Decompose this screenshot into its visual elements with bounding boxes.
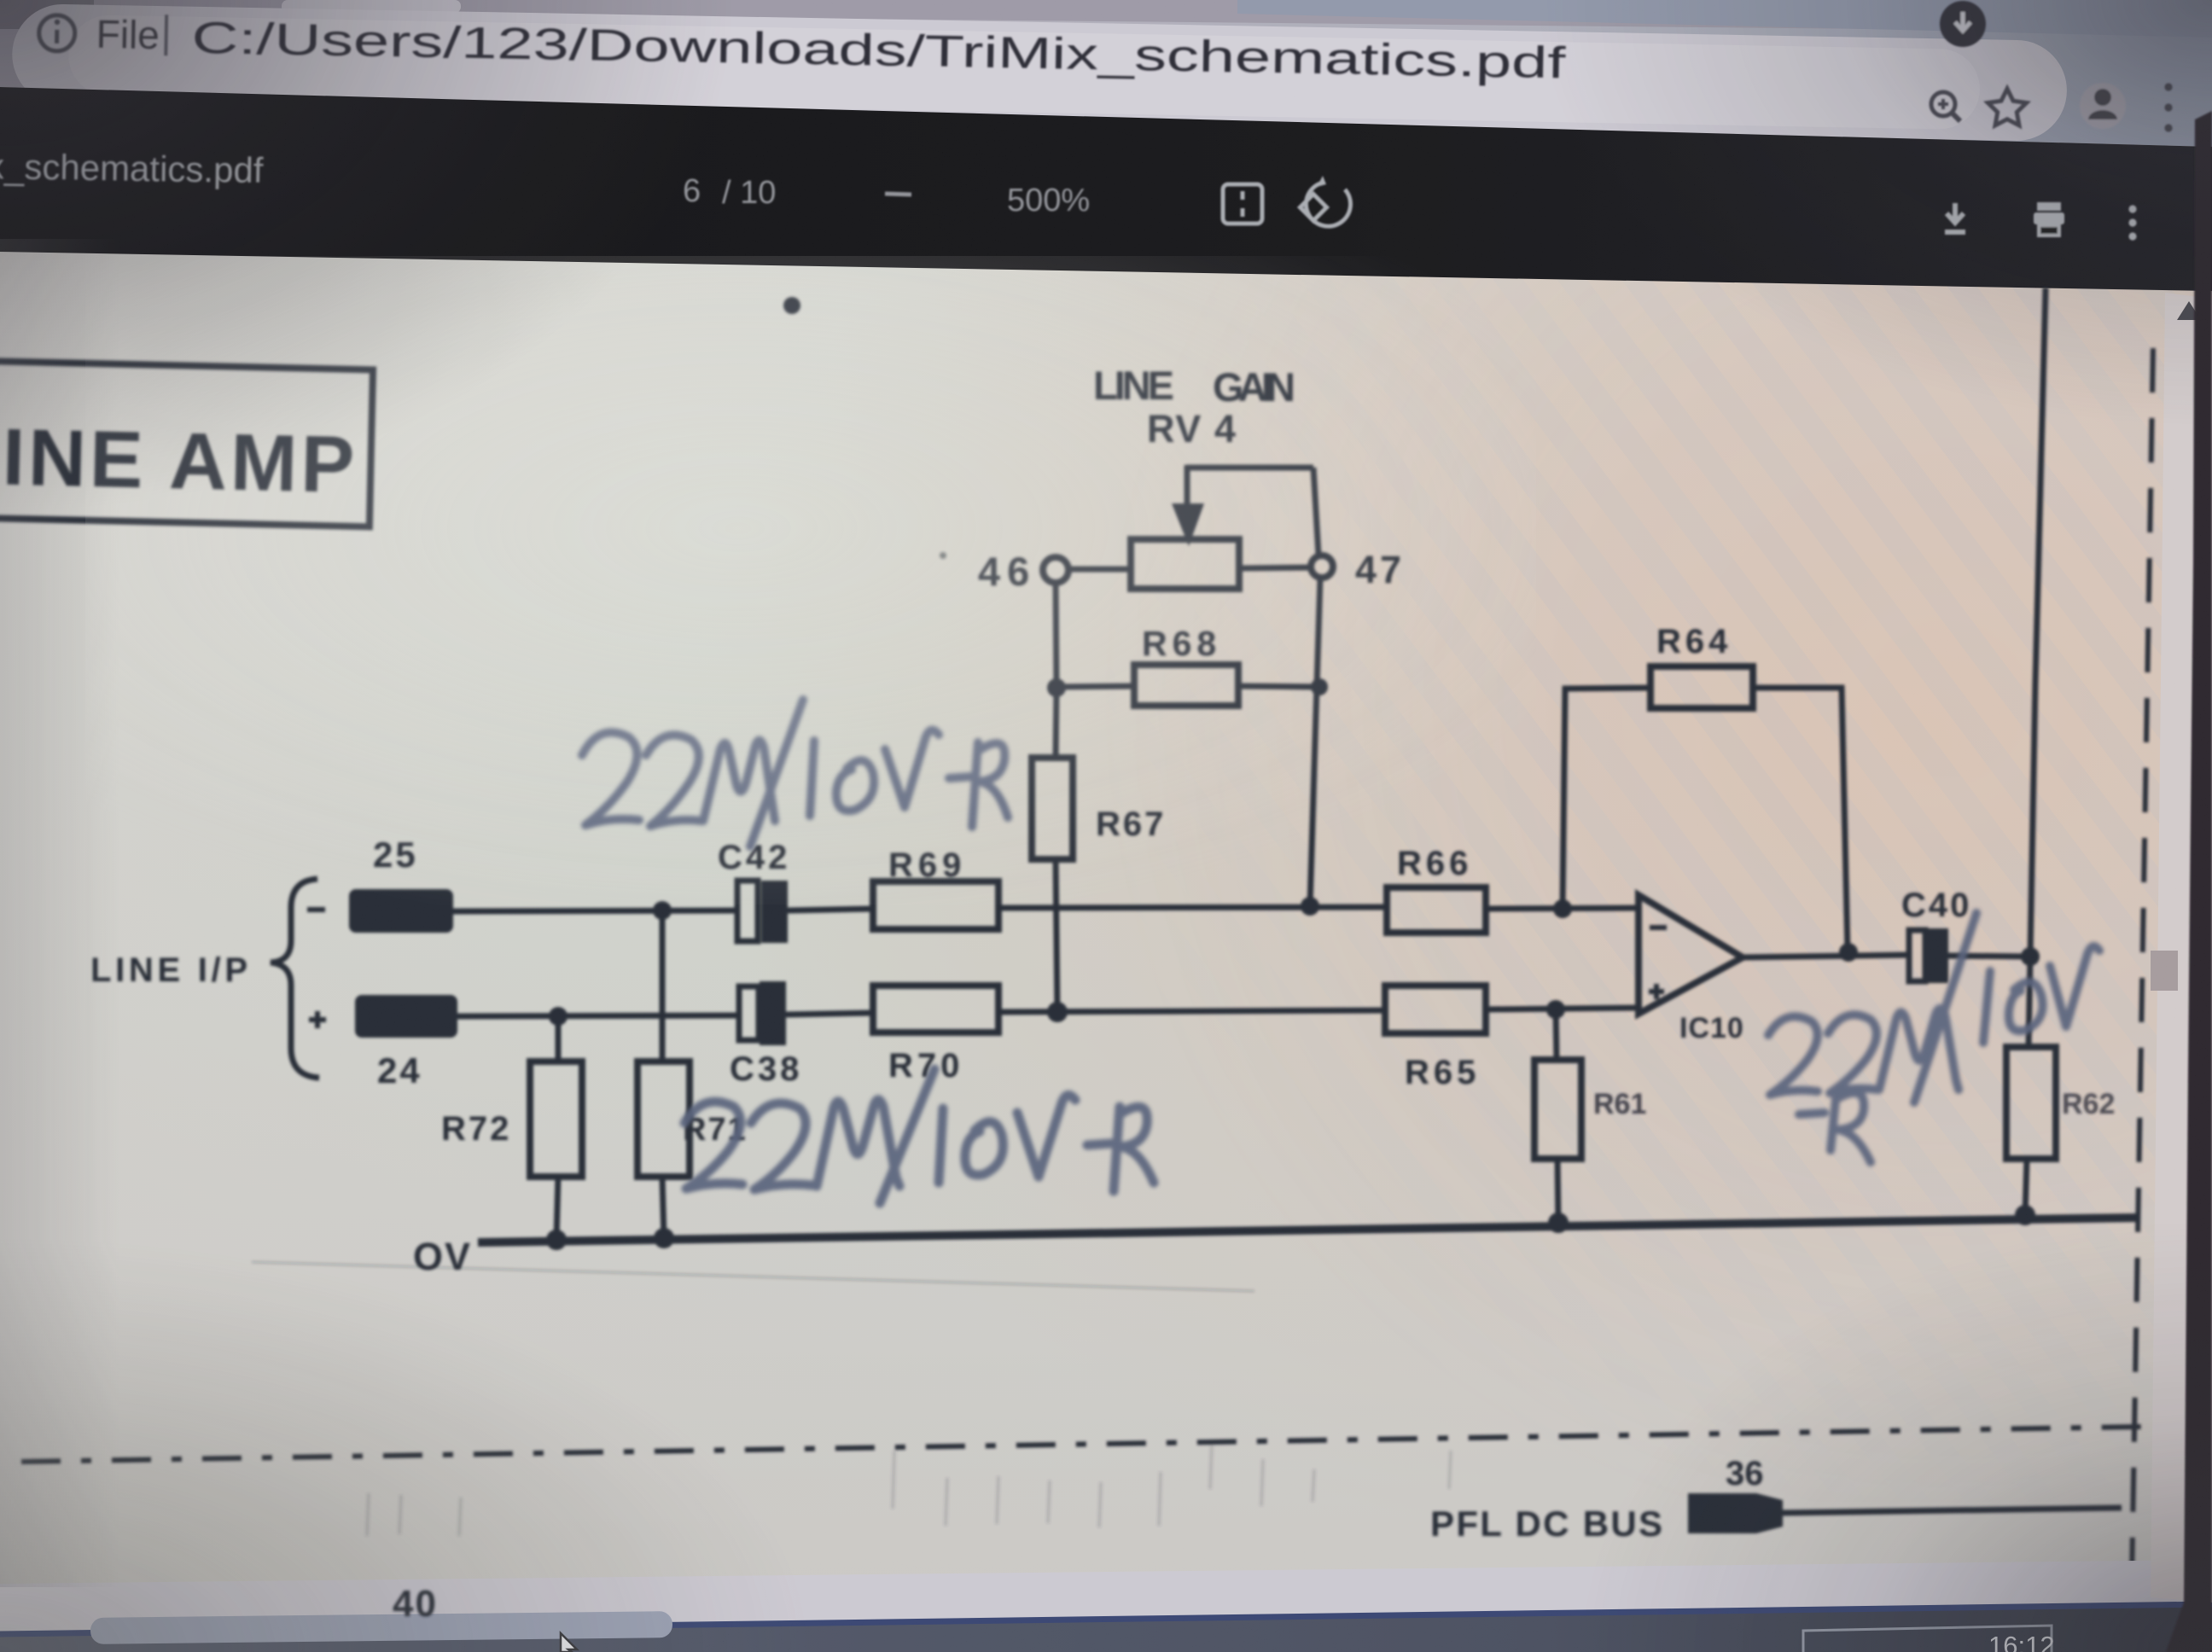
download icon bbox=[1945, 203, 1965, 232]
wire plus line seg2 bbox=[998, 1010, 1387, 1012]
wire 46 to pot bbox=[1068, 567, 1131, 573]
wire PFL DC BUS bbox=[1783, 1508, 2122, 1513]
wire R72 bottom bbox=[556, 1177, 558, 1240]
feedback wire up-left bbox=[1563, 688, 1650, 909]
star icon bbox=[1988, 89, 2026, 125]
wire C42 to R69 bbox=[788, 909, 873, 910]
resistor R68 bbox=[1134, 665, 1238, 706]
wire minus line seg2 bbox=[998, 907, 1388, 908]
terminal 24 bbox=[355, 995, 457, 1038]
resistor R70 bbox=[873, 986, 998, 1032]
wire R71 top bbox=[660, 910, 666, 1062]
node R68 right bbox=[1311, 678, 1328, 695]
browser kebab bbox=[2164, 83, 2172, 131]
node R68 left bbox=[1047, 678, 1066, 697]
resistor R72 bbox=[530, 1062, 582, 1177]
node output bus bbox=[2021, 947, 2040, 966]
minus polarity mark bbox=[307, 907, 325, 912]
horizontal scrollbar thumb bbox=[90, 1611, 672, 1644]
dashed page border right bbox=[2132, 348, 2153, 1580]
resistor R64 bbox=[1650, 666, 1753, 708]
wire 46 down to R67 bbox=[1056, 583, 1057, 758]
pdf toolbar bbox=[0, 87, 2212, 291]
wire R61 top bbox=[1556, 1009, 1557, 1060]
resistor R62 bbox=[2006, 1047, 2056, 1159]
rotate icon bbox=[1300, 176, 1350, 226]
potentiometer RV4 bbox=[1131, 465, 1318, 589]
wire R68 right bbox=[1238, 686, 1319, 687]
wire R65 to opamp bbox=[1486, 1008, 1639, 1009]
wire R72 top bbox=[556, 1016, 562, 1062]
node OV/R71 bbox=[654, 1228, 674, 1248]
wire C38 to R70 bbox=[786, 1013, 873, 1015]
node minus/R71 bbox=[653, 901, 672, 920]
wire minus line seg1 bbox=[453, 910, 738, 911]
printer icon bbox=[2034, 202, 2064, 236]
avatar icon bbox=[2080, 83, 2126, 129]
wire R62 bottom bbox=[2025, 1159, 2027, 1216]
node plus/R72 bbox=[549, 1007, 568, 1026]
faint pencil line bbox=[252, 1262, 1254, 1291]
address bar pill bbox=[11, 3, 2068, 142]
mouse cursor bbox=[561, 1633, 577, 1652]
wire opamp output bbox=[1741, 955, 1911, 957]
wire plus line seg1 bbox=[457, 1015, 740, 1016]
plus polarity mark bbox=[309, 1011, 326, 1028]
notification circle bbox=[1940, 1, 1986, 47]
input brace bbox=[271, 879, 319, 1078]
resistor R65 bbox=[1385, 986, 1486, 1033]
terminal 25 bbox=[349, 889, 453, 933]
wire R66 to opamp bbox=[1486, 908, 1639, 909]
pencil tick marks bbox=[367, 1444, 1451, 1536]
node R61/plus bbox=[1546, 1000, 1565, 1019]
opamp plus pin bbox=[1649, 984, 1664, 999]
node OV/R72 bbox=[546, 1230, 567, 1250]
taskbar bbox=[0, 1604, 2212, 1652]
fit page icon bbox=[1223, 184, 1262, 224]
monitor bezel right edge bbox=[2166, 111, 2212, 1652]
dash-dot page border bottom bbox=[21, 1427, 2142, 1462]
wire 47 down to minus line bbox=[1310, 578, 1320, 906]
feedback wire down-right bbox=[1753, 688, 1848, 952]
wire to R68 left bbox=[1057, 686, 1134, 687]
terminal circle 47 bbox=[1311, 556, 1333, 578]
wire C40 right bbox=[1948, 956, 2032, 957]
node R67/plus bbox=[1047, 1002, 1068, 1022]
node feedback/minus bbox=[1553, 899, 1572, 918]
op-amp IC10 bbox=[1639, 895, 1743, 1014]
wire output bus vertical bbox=[2029, 288, 2046, 1047]
resistor R66 bbox=[1387, 887, 1486, 933]
info icon bbox=[38, 15, 75, 51]
page artifact dot bbox=[783, 297, 800, 314]
capacitor C40 bbox=[1909, 928, 1948, 983]
pdf kebab bbox=[2128, 205, 2136, 240]
resistor R69 bbox=[873, 881, 998, 929]
vertical scrollbar bbox=[2151, 293, 2212, 1603]
capacitor C42 bbox=[737, 881, 788, 943]
handwritten value 22M/10V-R lower bbox=[684, 1069, 1154, 1203]
wire R61 bottom bbox=[1557, 1159, 1558, 1223]
node output/feedback bbox=[1839, 943, 1858, 962]
terminal 36 PFL bbox=[1688, 1493, 1783, 1533]
opamp minus pin bbox=[1650, 925, 1667, 930]
handwritten value 22M/10V-R upper bbox=[582, 700, 1008, 846]
handwritten value 22M/10V -R right bbox=[1768, 913, 2099, 1162]
LINE AMP title box bbox=[0, 360, 373, 526]
horizontal scrollbar bbox=[0, 1560, 2212, 1635]
OV rail bbox=[478, 1218, 2136, 1242]
node 47-vert joins minus bbox=[1301, 897, 1319, 916]
File label bbox=[96, 12, 1567, 89]
wire R71 bottom bbox=[662, 1177, 664, 1238]
node OV/R61 bbox=[1548, 1213, 1569, 1233]
node OV/R62 bbox=[2015, 1205, 2035, 1225]
handwriting annotations (blue pen) bbox=[582, 700, 2099, 1203]
wire pot to 47 bbox=[1239, 567, 1311, 568]
browser top chrome bbox=[0, 0, 2212, 147]
terminal circle 46 bbox=[1043, 557, 1068, 583]
resistor R67 bbox=[1032, 758, 1073, 859]
resistor R61 bbox=[1534, 1060, 1581, 1159]
zoom icon bbox=[1931, 92, 1960, 121]
label LINE GAIN bbox=[1093, 363, 1295, 410]
resistor R71 bbox=[637, 1062, 690, 1177]
capacitor C38 bbox=[739, 981, 786, 1045]
page artifact speck bbox=[940, 552, 946, 559]
wire R67 down to plus line bbox=[1056, 859, 1057, 1013]
